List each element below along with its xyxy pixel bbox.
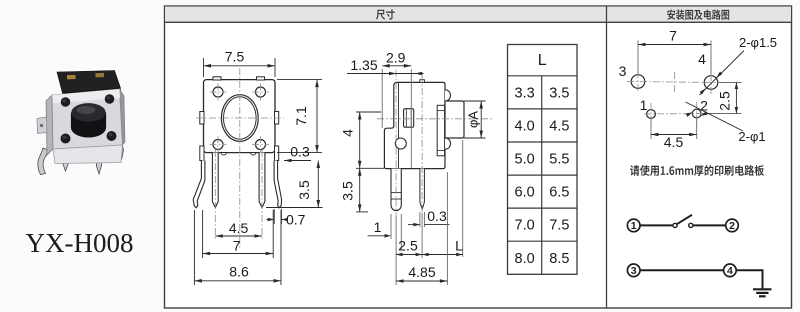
header label 尺寸 bbox=[376, 9, 395, 19]
wire switch to terminal 2 bbox=[693, 224, 726, 226]
dim 4 (side body upper height) bbox=[340, 112, 385, 212]
L dimension table bbox=[508, 45, 578, 275]
section divider bbox=[606, 6, 608, 308]
front view: outer bent legs bbox=[193, 161, 281, 208]
dim 7 (pcb hole pitch) bbox=[638, 28, 711, 75]
svg-text:4.5: 4.5 bbox=[549, 118, 569, 134]
svg-text:8.6: 8.6 bbox=[229, 264, 249, 280]
svg-text:7.5: 7.5 bbox=[549, 218, 569, 234]
header band bbox=[165, 7, 792, 23]
svg-text:4: 4 bbox=[727, 265, 733, 277]
dim 3.5 (front pin length) bbox=[266, 161, 323, 208]
svg-text:4: 4 bbox=[698, 51, 706, 67]
svg-text:3.5: 3.5 bbox=[340, 181, 356, 201]
switch SW1 lever bbox=[677, 215, 692, 224]
dim 0.3 (thin pin width) bbox=[408, 208, 449, 227]
front view: center lines bbox=[196, 68, 284, 250]
svg-text:0.3: 0.3 bbox=[290, 144, 310, 160]
svg-text:5.5: 5.5 bbox=[549, 152, 569, 168]
dim 7 (front outer leg pitch) bbox=[203, 210, 274, 258]
svg-text:2: 2 bbox=[729, 220, 735, 232]
svg-text:4.5: 4.5 bbox=[229, 220, 249, 236]
dim 0.3 (front bracket offset) bbox=[284, 144, 311, 163]
svg-text:7: 7 bbox=[669, 28, 677, 44]
leader 2-φ1.5 bbox=[700, 35, 778, 95]
svg-text:4: 4 bbox=[340, 129, 356, 137]
svg-text:6.0: 6.0 bbox=[515, 185, 535, 201]
svg-text:1: 1 bbox=[631, 220, 637, 232]
svg-text:7.0: 7.0 bbox=[515, 218, 535, 234]
svg-text:7: 7 bbox=[233, 238, 241, 254]
pcb hole 2 bbox=[692, 109, 701, 118]
svg-text:2.9: 2.9 bbox=[386, 50, 406, 66]
front view: inner pins bbox=[212, 150, 265, 240]
dim 8.6 (front total width) bbox=[194, 210, 281, 285]
svg-text:0.3: 0.3 bbox=[427, 208, 447, 224]
svg-text:3: 3 bbox=[619, 63, 627, 79]
svg-text:1.35: 1.35 bbox=[350, 57, 377, 73]
leader 2-φ1 bbox=[686, 102, 766, 144]
side view: pins bbox=[391, 169, 424, 211]
svg-text:3.5: 3.5 bbox=[296, 180, 312, 200]
wire terminal 4 to ground bbox=[736, 269, 762, 288]
switch SW1 contact right bbox=[689, 223, 693, 227]
svg-text:4.0: 4.0 bbox=[515, 118, 535, 134]
svg-text:7.5: 7.5 bbox=[225, 49, 245, 65]
ground bbox=[753, 289, 772, 296]
svg-text:3.3: 3.3 bbox=[515, 85, 535, 101]
side view: center lines bbox=[377, 70, 493, 217]
front view: corner rivets bbox=[210, 84, 270, 154]
main panel frame bbox=[165, 6, 792, 308]
dim 3.5 (side pin length) bbox=[340, 168, 362, 212]
front view: center button circle bbox=[221, 95, 258, 142]
pcb hole labels bbox=[619, 51, 709, 114]
terminal 2 bbox=[726, 219, 739, 232]
svg-text:4.5: 4.5 bbox=[664, 134, 684, 150]
switch SW1 contact left bbox=[673, 223, 677, 227]
pcb hole 1 bbox=[647, 110, 656, 119]
header label 安装图及电路图 bbox=[667, 9, 729, 19]
svg-text:8.0: 8.0 bbox=[515, 251, 535, 267]
side view: body outline bbox=[384, 80, 464, 169]
svg-text:φA: φA bbox=[466, 111, 481, 128]
dim L (button length) bbox=[422, 140, 463, 257]
dim 2.5 (pcb row pitch) bbox=[703, 83, 742, 114]
svg-text:2.5: 2.5 bbox=[398, 238, 418, 254]
svg-text:0.7: 0.7 bbox=[286, 212, 306, 228]
front view: switch body outline bbox=[200, 77, 279, 161]
dim 0.7 (front leg tip width) bbox=[267, 209, 306, 228]
svg-text:8.5: 8.5 bbox=[549, 251, 569, 267]
svg-text:3.5: 3.5 bbox=[549, 85, 569, 101]
svg-text:3: 3 bbox=[631, 265, 637, 277]
note text 请使用1.6mm厚的印刷电路板 bbox=[630, 165, 764, 176]
svg-text:4.85: 4.85 bbox=[408, 264, 435, 280]
dim 4.5 (front inner pin pitch) bbox=[215, 220, 262, 238]
product photo: tactile switch bbox=[37, 71, 125, 175]
svg-text:5.0: 5.0 bbox=[515, 152, 535, 168]
terminal 4 bbox=[724, 264, 737, 277]
dim 4.5 (pcb col pitch) bbox=[651, 119, 697, 151]
dim 2.9 (side top) bbox=[382, 50, 411, 169]
dim φA (button diameter) bbox=[464, 101, 486, 138]
svg-text:1: 1 bbox=[640, 97, 648, 113]
svg-text:2-φ1: 2-φ1 bbox=[738, 129, 765, 144]
pcb center lines bbox=[627, 61, 723, 126]
dim 2.5 (side pin pitch) bbox=[396, 213, 422, 285]
dim 7.5 (front top width) bbox=[204, 49, 276, 78]
svg-text:6.5: 6.5 bbox=[549, 185, 569, 201]
svg-text:YX-H008: YX-H008 bbox=[26, 228, 134, 258]
dim 1 (thick pin width) bbox=[368, 214, 402, 250]
model label YX-H008 bbox=[26, 228, 134, 258]
wire terminal1 to switch bbox=[640, 224, 673, 226]
svg-text:2.5: 2.5 bbox=[717, 91, 733, 111]
svg-text:7.1: 7.1 bbox=[293, 106, 309, 126]
svg-text:L: L bbox=[538, 52, 547, 69]
dim 7.1 (front body height) bbox=[277, 80, 322, 153]
terminal 1 bbox=[627, 219, 640, 232]
dim 4.85 (side total) bbox=[396, 172, 447, 285]
wire terminal 3 to terminal 4 bbox=[640, 269, 724, 271]
terminal 3 bbox=[627, 264, 640, 277]
svg-text:L: L bbox=[455, 238, 463, 254]
svg-text:1: 1 bbox=[374, 219, 382, 235]
svg-text:2-φ1.5: 2-φ1.5 bbox=[739, 35, 777, 50]
dim 1.35 (side pin offset) bbox=[347, 57, 424, 75]
pcb hole 3 bbox=[631, 75, 645, 89]
pcb hole 4 bbox=[704, 76, 718, 90]
